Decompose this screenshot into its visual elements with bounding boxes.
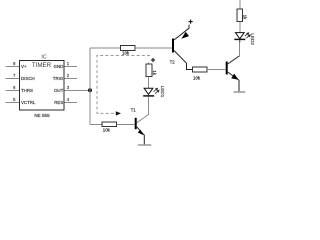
LED LED2 light arrows — [245, 33, 250, 38]
svg-text:NE 555: NE 555 — [34, 113, 50, 118]
svg-text:4: 4 — [67, 97, 70, 102]
svg-text:OUT: OUT — [54, 88, 64, 93]
wire : R1 to T2 base — [135, 47, 172, 49]
wire : R3 to LED2 — [239, 22, 241, 33]
LED LED1 triangle — [144, 88, 153, 94]
dashed annotation arrowhead — [116, 111, 121, 115]
node A : junction dot on OUT net — [88, 88, 92, 92]
svg-text:2: 2 — [67, 73, 70, 78]
dashed feedback annotation path — [97, 56, 150, 114]
transistor T1 emitter arrow (NPN, points out) — [138, 130, 143, 135]
svg-text:1k: 1k — [152, 70, 157, 75]
transistor Q3 emitter lead — [228, 72, 239, 91]
resistor R4 1k (LED1 series) — [146, 64, 152, 77]
transistor Q3 collector lead — [228, 40, 240, 64]
svg-text:7: 7 — [13, 73, 16, 78]
transistor T2 collector lead — [174, 51, 193, 70]
wire : R4 to LED1 — [148, 77, 150, 89]
svg-text:10k: 10k — [122, 51, 130, 56]
wire : LED1 down to T1 collector — [137, 97, 149, 123]
power + (middle branch supply) — [151, 58, 155, 62]
pin 7 wire (DISCH) — [6, 78, 20, 80]
svg-text:VCTRL: VCTRL — [21, 100, 36, 105]
svg-text:TIMER: TIMER — [32, 62, 52, 69]
svg-text:T2: T2 — [170, 60, 176, 65]
transistor T2 emitter lead to + — [174, 25, 189, 40]
svg-text:5: 5 — [13, 97, 16, 102]
LED LED2 triangle — [235, 33, 244, 39]
wire : + stub to R4 — [148, 62, 150, 64]
svg-text:1: 1 — [67, 61, 70, 66]
transistor T2 (PNP) base bar — [172, 39, 174, 53]
svg-text:TRIG: TRIG — [53, 76, 64, 81]
wire : OUT vertical bus x=90 — [89, 48, 91, 124]
pin 1 wire (GND) — [64, 66, 77, 68]
svg-text:IC: IC — [41, 54, 46, 60]
svg-text:V+: V+ — [21, 64, 27, 69]
svg-text:1k: 1k — [243, 15, 248, 20]
resistor R5 10k (T1 base) — [102, 122, 117, 127]
pin 3 wire (OUT) — [64, 90, 90, 92]
transistor T1 emitter lead — [137, 127, 145, 145]
pin 8 wire (V+) — [6, 66, 20, 68]
svg-text:LED1: LED1 — [160, 86, 165, 98]
pin 4 wire (RES) — [64, 102, 77, 104]
LED LED2 cathode bar — [234, 38, 245, 40]
wire : R5 to T1 base — [117, 123, 135, 125]
resistor R1 10k (top) — [121, 45, 136, 50]
svg-text:T1: T1 — [131, 107, 137, 112]
transistor Q3 emitter arrow (NPN, points out) — [231, 74, 238, 80]
power + (T2 emitter supply) — [189, 20, 193, 24]
IC NE555 timer body — [20, 61, 65, 111]
LED LED1 light arrows — [154, 88, 159, 93]
LED LED1 cathode bar — [143, 95, 154, 97]
transistor T2 emitter arrow (PNP, points to bar) — [181, 32, 189, 39]
transistor T1 (NPN) base bar — [135, 118, 137, 129]
wire : top branch from bus to R1 — [90, 47, 121, 49]
ground (below Q3) — [234, 91, 246, 93]
svg-text:6: 6 — [13, 85, 16, 90]
svg-text:8: 8 — [13, 61, 16, 66]
resistor R3 1k (LED2 series) — [237, 9, 242, 22]
svg-text:3: 3 — [67, 85, 70, 90]
resistor R2 10k (T3 base) — [193, 67, 208, 72]
pin 6 wire (THRS) — [6, 90, 20, 92]
svg-text:LED2: LED2 — [250, 33, 255, 45]
pin 5 wire (VCTRL) — [6, 102, 20, 104]
transistor Q3 (NPN, right) base bar — [226, 62, 228, 75]
wire : top feed to R3 — [239, 0, 241, 9]
ground (below T1) — [138, 144, 151, 146]
svg-text:THRS: THRS — [21, 88, 33, 93]
svg-text:DISCH: DISCH — [21, 76, 35, 81]
pin 2 wire (TRIG) — [64, 78, 77, 80]
svg-text:10k: 10k — [103, 127, 111, 132]
wire : bottom branch from bus to R5 — [90, 123, 102, 125]
wire : LED2 to Q3 collector — [239, 40, 241, 56]
svg-text:GND: GND — [54, 64, 64, 69]
svg-text:RES: RES — [54, 100, 63, 105]
svg-text:10k: 10k — [193, 75, 201, 80]
wire : R2 to T3 base — [207, 69, 226, 71]
